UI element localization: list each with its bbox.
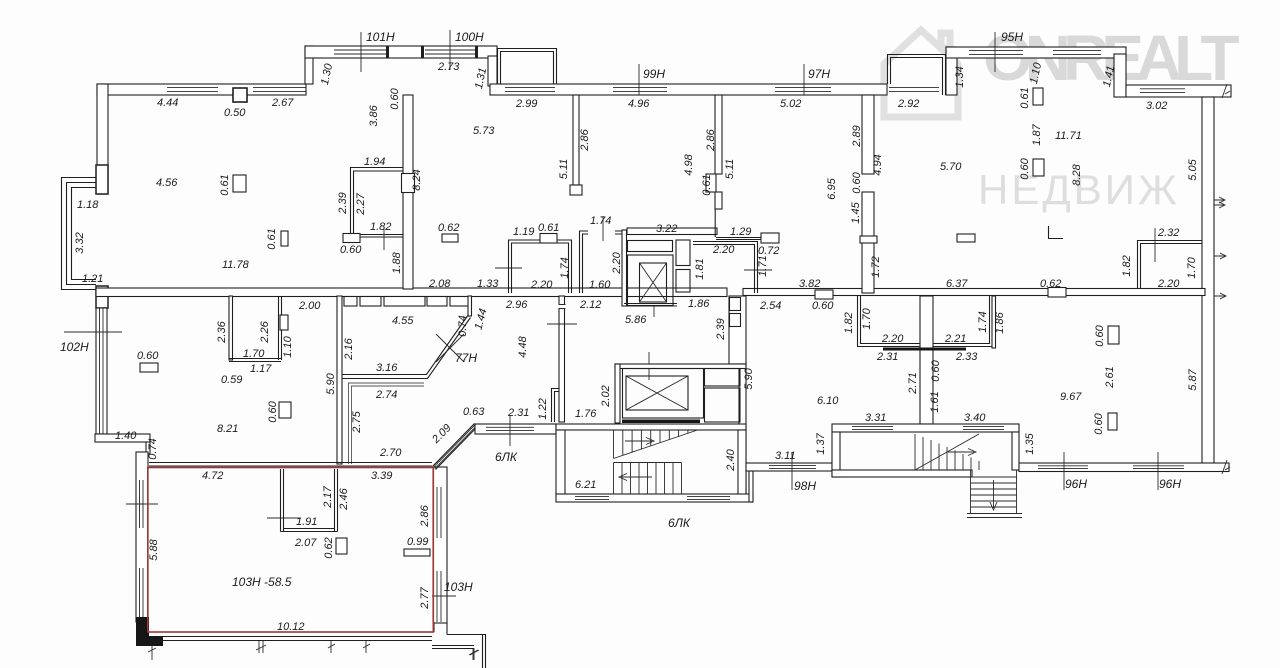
- svg-text:0.60: 0.60: [1019, 157, 1031, 179]
- svg-text:2.32: 2.32: [1157, 227, 1179, 239]
- svg-text:1.61: 1.61: [929, 391, 941, 412]
- svg-text:1.60: 1.60: [589, 279, 611, 291]
- svg-text:0.50: 0.50: [224, 107, 246, 119]
- svg-text:103Н -58.5: 103Н -58.5: [232, 575, 292, 589]
- svg-text:4.94: 4.94: [872, 154, 884, 175]
- svg-text:6ЛК: 6ЛК: [668, 516, 691, 530]
- svg-text:77Н: 77Н: [455, 351, 477, 365]
- svg-text:1.91: 1.91: [296, 516, 317, 528]
- svg-text:2.27: 2.27: [355, 192, 367, 215]
- svg-text:5.11: 5.11: [558, 159, 570, 180]
- svg-text:3.02: 3.02: [1146, 100, 1167, 112]
- svg-text:8.24: 8.24: [411, 169, 423, 190]
- svg-text:1.18: 1.18: [77, 199, 99, 211]
- svg-text:11.78: 11.78: [222, 259, 250, 271]
- svg-text:103Н: 103Н: [444, 580, 473, 594]
- svg-text:3.16: 3.16: [376, 362, 398, 374]
- svg-text:0.59: 0.59: [221, 374, 242, 386]
- svg-text:0.60: 0.60: [1094, 324, 1106, 346]
- svg-text:1.21: 1.21: [82, 273, 103, 285]
- svg-text:5.11: 5.11: [724, 159, 736, 180]
- svg-text:1.74: 1.74: [559, 257, 571, 278]
- svg-text:2.33: 2.33: [955, 351, 978, 363]
- svg-text:4.56: 4.56: [156, 177, 178, 189]
- svg-text:1.17: 1.17: [250, 363, 272, 375]
- svg-text:1.74: 1.74: [977, 311, 989, 332]
- svg-text:0.62: 0.62: [1040, 278, 1061, 290]
- svg-text:0.61: 0.61: [701, 174, 713, 195]
- svg-text:9.67: 9.67: [1060, 391, 1082, 403]
- svg-text:95Н: 95Н: [1001, 30, 1023, 44]
- svg-text:11.71: 11.71: [1055, 130, 1082, 142]
- svg-text:100Н: 100Н: [455, 30, 484, 44]
- svg-text:6.10: 6.10: [817, 395, 839, 407]
- svg-text:6.21: 6.21: [575, 479, 596, 491]
- svg-text:1.19: 1.19: [513, 226, 534, 238]
- svg-text:8.28: 8.28: [1071, 163, 1083, 185]
- svg-text:2.21: 2.21: [944, 333, 966, 345]
- svg-text:2.39: 2.39: [715, 318, 727, 340]
- svg-text:0.61: 0.61: [538, 222, 559, 234]
- svg-text:2.20: 2.20: [712, 244, 735, 256]
- svg-text:2.26: 2.26: [259, 320, 271, 343]
- svg-text:98Н: 98Н: [794, 479, 816, 493]
- svg-text:0.60: 0.60: [812, 300, 834, 312]
- svg-text:2.54: 2.54: [759, 300, 781, 312]
- svg-text:2.16: 2.16: [343, 337, 355, 360]
- svg-text:2.70: 2.70: [379, 447, 402, 459]
- svg-text:2.61: 2.61: [1104, 366, 1116, 388]
- svg-text:0.62: 0.62: [323, 537, 335, 558]
- svg-text:1.74: 1.74: [590, 215, 611, 227]
- svg-text:2.99: 2.99: [515, 98, 537, 110]
- svg-text:0.72: 0.72: [758, 245, 779, 257]
- svg-text:1.35: 1.35: [1024, 432, 1036, 454]
- svg-text:5.88: 5.88: [148, 538, 160, 560]
- svg-text:2.17: 2.17: [322, 485, 334, 508]
- svg-text:1.81: 1.81: [694, 258, 706, 279]
- svg-text:2.73: 2.73: [437, 61, 460, 73]
- svg-text:1.70: 1.70: [861, 307, 873, 329]
- svg-text:3.11: 3.11: [775, 450, 796, 462]
- svg-text:1.10: 1.10: [282, 335, 294, 357]
- svg-text:2.92: 2.92: [897, 98, 919, 110]
- svg-text:2.96: 2.96: [505, 299, 528, 311]
- svg-text:1.33: 1.33: [477, 278, 499, 290]
- svg-text:2.02: 2.02: [600, 385, 612, 407]
- svg-text:2.77: 2.77: [419, 586, 431, 609]
- svg-text:3.39: 3.39: [371, 470, 392, 482]
- svg-text:2.71: 2.71: [907, 372, 919, 394]
- svg-text:6.37: 6.37: [946, 278, 968, 290]
- svg-text:0.61: 0.61: [1019, 87, 1031, 108]
- svg-text:2.20: 2.20: [530, 279, 553, 291]
- svg-text:101Н: 101Н: [366, 30, 395, 44]
- svg-text:4.55: 4.55: [392, 315, 414, 327]
- svg-text:1.70: 1.70: [1186, 256, 1198, 278]
- svg-text:0.61: 0.61: [219, 174, 231, 195]
- svg-text:0.74: 0.74: [147, 438, 159, 459]
- svg-text:6.95: 6.95: [826, 177, 838, 199]
- svg-text:2.40: 2.40: [725, 448, 737, 471]
- svg-text:2.08: 2.08: [428, 278, 451, 290]
- svg-text:0.74: 0.74: [457, 315, 469, 336]
- svg-text:2.89: 2.89: [851, 125, 863, 147]
- svg-text:3.22: 3.22: [656, 223, 677, 235]
- svg-text:1.76: 1.76: [575, 408, 597, 420]
- svg-text:2.86: 2.86: [579, 128, 591, 151]
- svg-text:0.60: 0.60: [137, 350, 159, 362]
- svg-text:2.12: 2.12: [579, 299, 601, 311]
- svg-text:2.31: 2.31: [507, 407, 529, 419]
- svg-text:5.90: 5.90: [743, 367, 755, 389]
- svg-text:1.71: 1.71: [757, 255, 769, 276]
- svg-text:2.00: 2.00: [298, 300, 321, 312]
- svg-text:1.29: 1.29: [730, 226, 751, 238]
- svg-text:2.36: 2.36: [216, 320, 228, 343]
- svg-text:5.70: 5.70: [940, 161, 962, 173]
- svg-text:2.31: 2.31: [876, 351, 898, 363]
- svg-text:0.60: 0.60: [267, 400, 279, 422]
- svg-text:0.61: 0.61: [266, 228, 278, 249]
- svg-text:2.20: 2.20: [881, 333, 904, 345]
- svg-text:5.87: 5.87: [1187, 368, 1199, 390]
- svg-text:1.40: 1.40: [115, 430, 137, 442]
- svg-text:0.60: 0.60: [340, 244, 362, 256]
- svg-text:2.74: 2.74: [375, 389, 397, 401]
- svg-text:1.86: 1.86: [994, 311, 1006, 333]
- svg-text:5.05: 5.05: [1187, 158, 1199, 180]
- svg-text:97Н: 97Н: [808, 67, 830, 81]
- svg-text:2.20: 2.20: [1157, 278, 1180, 290]
- svg-text:10.12: 10.12: [277, 621, 305, 633]
- svg-text:102Н: 102Н: [60, 340, 89, 354]
- svg-text:2.86: 2.86: [419, 504, 431, 527]
- svg-text:5.02: 5.02: [780, 98, 801, 110]
- svg-text:5.73: 5.73: [473, 125, 495, 137]
- svg-text:3.31: 3.31: [865, 412, 886, 424]
- svg-text:96Н: 96Н: [1065, 477, 1087, 491]
- svg-text:6ЛК: 6ЛК: [495, 450, 518, 464]
- svg-text:4.48: 4.48: [517, 335, 529, 357]
- svg-text:1.87: 1.87: [1031, 123, 1043, 145]
- svg-text:1.94: 1.94: [364, 156, 385, 168]
- svg-text:1.34: 1.34: [954, 66, 966, 87]
- svg-text:0.60: 0.60: [389, 87, 401, 109]
- svg-text:3.32: 3.32: [74, 232, 86, 253]
- svg-text:0.62: 0.62: [438, 222, 459, 234]
- svg-text:4.98: 4.98: [683, 153, 695, 175]
- svg-text:2.86: 2.86: [705, 128, 717, 151]
- svg-text:1.70: 1.70: [243, 348, 265, 360]
- svg-text:0.99: 0.99: [407, 536, 428, 548]
- svg-text:2.67: 2.67: [271, 97, 294, 109]
- svg-text:3.86: 3.86: [368, 104, 380, 126]
- svg-text:1.82: 1.82: [843, 312, 855, 333]
- svg-text:0.63: 0.63: [463, 406, 485, 418]
- svg-text:1.22: 1.22: [537, 398, 549, 419]
- svg-text:0.60: 0.60: [930, 359, 942, 381]
- svg-text:3.40: 3.40: [964, 412, 986, 424]
- svg-text:0.60: 0.60: [851, 171, 863, 193]
- svg-text:8.21: 8.21: [217, 423, 238, 435]
- svg-text:1.88: 1.88: [391, 251, 403, 273]
- svg-text:2.20: 2.20: [611, 251, 623, 274]
- svg-text:5.90: 5.90: [325, 372, 337, 394]
- svg-text:4.44: 4.44: [157, 97, 178, 109]
- svg-text:2.07: 2.07: [294, 537, 317, 549]
- svg-text:5.86: 5.86: [625, 314, 647, 326]
- svg-text:1.37: 1.37: [815, 432, 827, 454]
- svg-text:3.82: 3.82: [799, 278, 820, 290]
- svg-text:96Н: 96Н: [1159, 477, 1181, 491]
- svg-text:1.72: 1.72: [870, 256, 882, 277]
- svg-text:99Н: 99Н: [643, 67, 665, 81]
- svg-text:4.96: 4.96: [628, 98, 650, 110]
- svg-text:2.46: 2.46: [338, 487, 350, 510]
- svg-text:0.60: 0.60: [1093, 412, 1105, 434]
- svg-text:2.75: 2.75: [351, 410, 363, 433]
- svg-text:1.82: 1.82: [370, 221, 391, 233]
- svg-text:2.39: 2.39: [337, 192, 349, 214]
- svg-text:1.86: 1.86: [688, 298, 710, 310]
- svg-text:1.45: 1.45: [850, 201, 862, 223]
- svg-text:1.82: 1.82: [1121, 255, 1133, 276]
- svg-text:4.72: 4.72: [202, 470, 223, 482]
